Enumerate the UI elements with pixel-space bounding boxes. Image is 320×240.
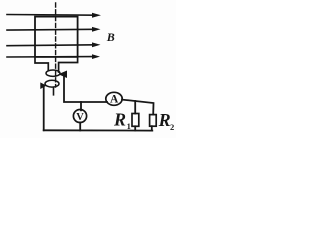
resistor R2	[150, 115, 157, 127]
shaft stub	[53, 87, 55, 95]
field line B4	[7, 54, 100, 59]
svg-text:2: 2	[170, 122, 174, 132]
coil rectangle	[35, 17, 78, 57]
rotation axis (dashed)	[55, 3, 57, 87]
field line B3	[7, 42, 101, 47]
svg-text:R: R	[113, 109, 126, 129]
label R1	[113, 109, 131, 131]
wire: left brush down to bottom	[43, 87, 45, 130]
ammeter A	[106, 92, 122, 105]
wire: R1 bottom	[134, 126, 136, 130]
svg-text:R: R	[158, 110, 171, 130]
svg-text:1: 1	[127, 121, 131, 131]
wire: right brush down and to ammeter	[64, 77, 107, 102]
svg-text:B: B	[106, 30, 115, 44]
wire: ammeter to R2 top corner	[122, 100, 154, 115]
wire: R1 top branch	[134, 101, 136, 114]
voltmeter V	[73, 110, 86, 123]
wire: R2 bottom	[151, 126, 153, 130]
field line B2	[7, 27, 101, 32]
wire: voltmeter bottom	[79, 122, 81, 130]
label R2	[158, 110, 175, 132]
slip ring 2	[45, 80, 59, 87]
brush right	[60, 71, 67, 77]
wire: voltmeter branch top	[80, 102, 82, 110]
resistor R1	[132, 114, 139, 127]
coil left lead	[35, 57, 48, 71]
coil right lead	[59, 57, 78, 72]
slip ring 1	[46, 70, 60, 76]
svg-text:V: V	[76, 112, 84, 123]
bottom wire	[44, 129, 153, 131]
svg-text:A: A	[110, 94, 119, 106]
field line B1	[7, 13, 101, 18]
brush left	[41, 83, 46, 88]
